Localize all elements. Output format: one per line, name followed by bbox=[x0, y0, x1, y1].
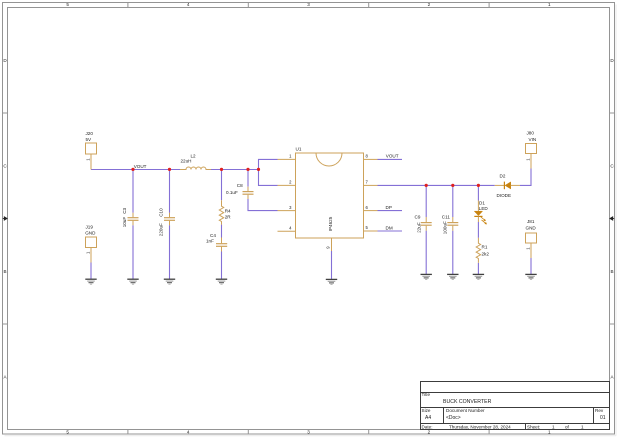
svg-text:LED: LED bbox=[479, 206, 489, 211]
wire DM pin 5 bbox=[378, 230, 403, 232]
wire pin 7 bus bbox=[378, 184, 495, 186]
svg-text:<Doc>: <Doc> bbox=[446, 415, 461, 421]
connector J81 bbox=[526, 233, 537, 258]
inductor L2 bbox=[180, 167, 211, 170]
svg-text:Date:: Date: bbox=[422, 425, 433, 430]
svg-text:C4: C4 bbox=[210, 233, 216, 238]
svg-text:Document Number: Document Number bbox=[446, 408, 485, 413]
svg-text:B: B bbox=[3, 269, 6, 274]
svg-text:220uF: 220uF bbox=[159, 223, 164, 236]
frame right ticks bbox=[610, 113, 615, 324]
U1 pin 9 stub bbox=[331, 238, 333, 251]
svg-text:BUCK CONVERTER: BUCK CONVERTER bbox=[443, 399, 492, 405]
inductor L2 labels bbox=[181, 154, 197, 164]
wire U1 pin 9 to ground bbox=[331, 251, 333, 279]
svg-text:0.1uF: 0.1uF bbox=[226, 190, 238, 195]
svg-text:J19: J19 bbox=[86, 224, 94, 229]
diode D2 labels bbox=[497, 173, 512, 198]
ground J19 bbox=[85, 279, 96, 284]
svg-text:10uF: 10uF bbox=[122, 217, 127, 228]
connector J19 bbox=[86, 237, 97, 263]
frame bottom ticks bbox=[128, 430, 489, 435]
svg-text:VOUT: VOUT bbox=[386, 154, 399, 159]
svg-text:Rev: Rev bbox=[595, 408, 604, 413]
svg-text:D1: D1 bbox=[479, 201, 485, 206]
wire C11 branch bbox=[452, 185, 454, 274]
title block bbox=[421, 382, 610, 430]
node VOUT label pin 8 bbox=[386, 154, 399, 159]
svg-text:C3: C3 bbox=[122, 207, 127, 213]
svg-text:5: 5 bbox=[66, 430, 69, 435]
wire to U1 pin 1 bbox=[259, 159, 278, 169]
resistor R1 labels bbox=[482, 244, 490, 256]
frame zone letters left bbox=[3, 58, 7, 380]
junction dots bbox=[131, 168, 480, 187]
svg-text:J80: J80 bbox=[527, 131, 535, 136]
svg-text:2R: 2R bbox=[225, 214, 232, 219]
frame center arrow left bbox=[3, 217, 7, 221]
svg-text:GND: GND bbox=[85, 231, 96, 236]
svg-text:1nF: 1nF bbox=[206, 238, 214, 243]
capacitor C9 labels bbox=[415, 215, 422, 233]
svg-text:3: 3 bbox=[307, 2, 310, 7]
capacitor C10 bbox=[164, 213, 175, 225]
svg-text:1: 1 bbox=[548, 2, 551, 7]
svg-text:DP: DP bbox=[386, 205, 392, 210]
wire VOUT bus left bbox=[91, 169, 259, 171]
connector J20 bbox=[86, 143, 97, 170]
capacitor C11 labels bbox=[442, 215, 451, 235]
svg-text:5: 5 bbox=[66, 2, 69, 7]
connector J20 labels bbox=[85, 131, 93, 161]
wire C3 branch bbox=[132, 170, 134, 280]
svg-text:Thursday, November 28, 2024: Thursday, November 28, 2024 bbox=[449, 425, 511, 430]
ground C10 bbox=[164, 279, 175, 284]
svg-text:22uF: 22uF bbox=[416, 222, 421, 233]
svg-text:5V: 5V bbox=[86, 137, 93, 142]
connector J81 labels bbox=[525, 219, 536, 250]
svg-text:2: 2 bbox=[428, 2, 431, 7]
node VOUT label left bbox=[134, 164, 147, 169]
capacitor C4 bbox=[216, 238, 227, 252]
connector J19 labels bbox=[85, 224, 96, 254]
svg-text:C9: C9 bbox=[415, 215, 421, 220]
svg-text:VIN: VIN bbox=[529, 137, 537, 142]
capacitor C10 labels bbox=[159, 208, 164, 236]
svg-text:4: 4 bbox=[187, 430, 190, 435]
resistor R4 bbox=[219, 200, 223, 224]
svg-text:J20: J20 bbox=[86, 131, 94, 136]
ground J81 bbox=[525, 274, 536, 279]
capacitor C11 bbox=[447, 217, 458, 231]
LED D1 bbox=[474, 201, 487, 225]
wire D2 to J80 bbox=[520, 169, 531, 186]
svg-text:R1: R1 bbox=[482, 244, 488, 249]
wire C8 to pin 3 bbox=[248, 170, 278, 211]
connector J80 bbox=[526, 144, 537, 169]
svg-text:J81: J81 bbox=[527, 219, 535, 224]
wire D1 R1 branch bbox=[477, 185, 479, 274]
resistor R1 bbox=[476, 238, 480, 263]
ground C11 bbox=[447, 274, 458, 279]
svg-text:1: 1 bbox=[552, 425, 555, 430]
wire J81 to ground bbox=[530, 258, 532, 274]
svg-text:DM: DM bbox=[386, 226, 393, 231]
wire C10 branch bbox=[169, 170, 171, 280]
connector J80 labels bbox=[525, 131, 536, 161]
svg-text:B: B bbox=[610, 269, 613, 274]
svg-text:DIODE: DIODE bbox=[497, 193, 512, 198]
U1 pins right bbox=[364, 159, 378, 231]
ground R1 bbox=[473, 274, 484, 279]
ground C4 bbox=[216, 279, 227, 284]
svg-text:2k2: 2k2 bbox=[482, 252, 490, 257]
U1 pins left bbox=[278, 159, 296, 231]
capacitor C4 labels bbox=[206, 233, 216, 243]
node DP label bbox=[386, 205, 392, 210]
diode D2 bbox=[495, 182, 520, 190]
U1 labels bbox=[296, 147, 333, 249]
svg-text:C8: C8 bbox=[237, 183, 243, 188]
svg-text:1: 1 bbox=[548, 430, 551, 435]
ground C3 bbox=[127, 279, 138, 284]
svg-text:C10: C10 bbox=[159, 208, 164, 217]
svg-text:GND: GND bbox=[526, 226, 537, 231]
svg-text:4: 4 bbox=[187, 2, 190, 7]
wire to U1 pin 2 bbox=[259, 170, 278, 186]
svg-text:Sheet:: Sheet: bbox=[527, 425, 540, 430]
capacitor C3 bbox=[128, 213, 139, 225]
ground C9 bbox=[421, 274, 432, 279]
frame left ticks bbox=[3, 113, 8, 324]
frame top ticks bbox=[128, 3, 489, 8]
svg-text:Title: Title bbox=[422, 392, 431, 397]
svg-text:1: 1 bbox=[581, 425, 584, 430]
svg-text:Size: Size bbox=[422, 408, 431, 413]
LED D1 labels bbox=[479, 201, 489, 212]
svg-text:D2: D2 bbox=[500, 173, 506, 178]
title block text bbox=[422, 392, 606, 430]
capacitor C8 bbox=[243, 187, 254, 199]
frame zone letters right bbox=[610, 58, 614, 380]
wire R4 C4 branch bbox=[221, 170, 223, 280]
capacitor C9 bbox=[421, 217, 432, 231]
U1 pin numbers bbox=[289, 154, 368, 231]
svg-text:100uF: 100uF bbox=[443, 221, 448, 234]
capacitor C8 labels bbox=[226, 183, 243, 195]
frame center arrow right bbox=[610, 217, 614, 221]
capacitor C3 labels bbox=[122, 207, 127, 227]
svg-text:R4: R4 bbox=[225, 209, 231, 214]
ground U1 pin 9 bbox=[326, 279, 337, 284]
op-amp U1 body bbox=[296, 153, 364, 238]
svg-text:IP4625: IP4625 bbox=[328, 216, 333, 231]
svg-text:VOUT: VOUT bbox=[134, 164, 147, 169]
frame zone numbers bottom bbox=[66, 430, 551, 435]
svg-text:A4: A4 bbox=[425, 415, 431, 421]
wire C9 branch bbox=[425, 185, 427, 274]
svg-text:C11: C11 bbox=[442, 215, 451, 220]
node DM label bbox=[386, 226, 393, 231]
wire DP pin 6 bbox=[378, 210, 403, 212]
frame zone numbers top bbox=[66, 2, 551, 7]
svg-text:01: 01 bbox=[600, 415, 606, 421]
svg-text:2: 2 bbox=[428, 430, 431, 435]
svg-text:U1: U1 bbox=[296, 147, 302, 152]
svg-text:22uH: 22uH bbox=[181, 159, 192, 164]
resistor R4 labels bbox=[225, 209, 232, 220]
wire J19 to ground bbox=[90, 263, 92, 280]
svg-text:3: 3 bbox=[307, 430, 310, 435]
wire VOUT pin 8 bbox=[378, 158, 403, 160]
